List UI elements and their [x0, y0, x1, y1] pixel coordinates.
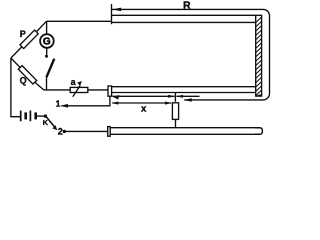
svg-text:R: R — [183, 0, 191, 11]
svg-text:x: x — [141, 103, 147, 114]
svg-text:K: K — [43, 118, 49, 127]
svg-text:1: 1 — [56, 98, 61, 108]
svg-text:2: 2 — [58, 127, 63, 137]
svg-text:Q: Q — [20, 75, 27, 85]
svg-text:P: P — [20, 29, 26, 39]
svg-text:G: G — [43, 37, 51, 48]
